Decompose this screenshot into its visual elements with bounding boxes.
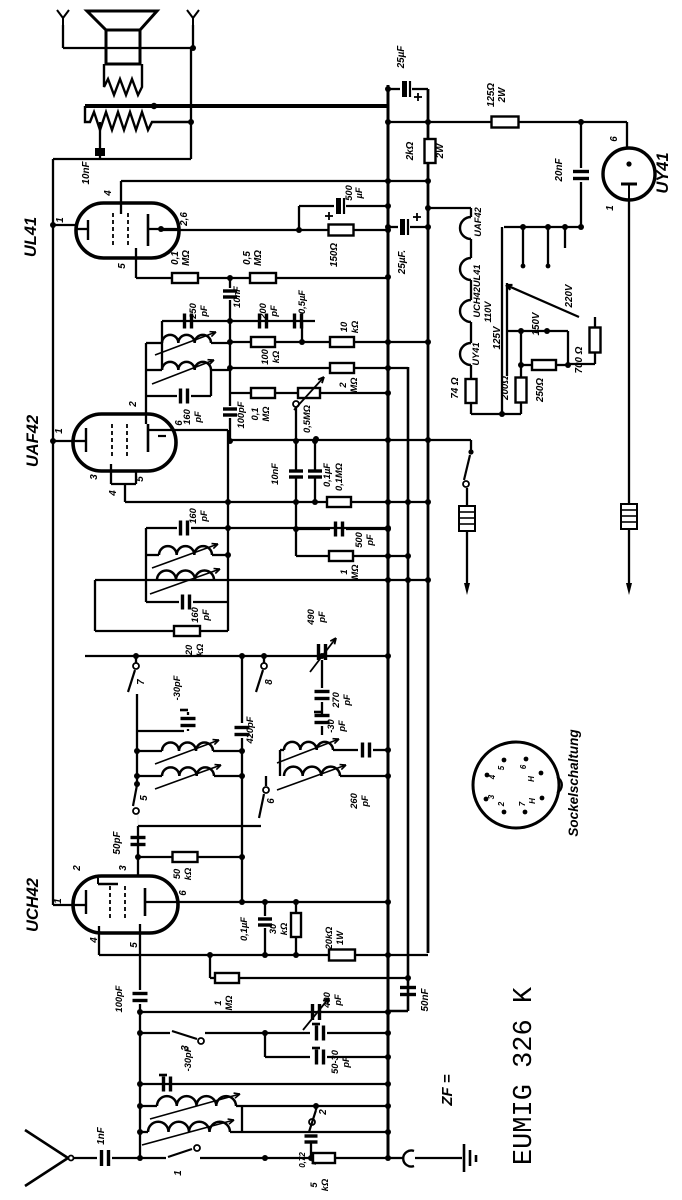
svg-text:µF: µF <box>354 187 364 199</box>
UL41 pin 4 lead <box>120 181 122 214</box>
capacitor 160pF IF1 bottom <box>146 601 179 603</box>
svg-text:490: 490 <box>322 991 332 1008</box>
svg-text:-30pF: -30pF <box>172 675 182 700</box>
IF1 core arrow <box>152 544 218 568</box>
wire IF2 right column <box>145 343 147 396</box>
svg-text:150V: 150V <box>531 311 542 335</box>
svg-text:270: 270 <box>331 691 341 708</box>
node <box>227 318 233 324</box>
svg-text:3: 3 <box>118 865 129 871</box>
node <box>135 854 141 860</box>
antenna coil upper <box>140 1105 157 1107</box>
svg-text:250Ω: 250Ω <box>535 378 546 403</box>
wire cathode row py278 <box>136 277 388 279</box>
svg-text:EUMIG 326 K: EUMIG 326 K <box>510 986 540 1165</box>
wire B+ heavy bus to output <box>85 104 388 108</box>
resistor 125 Ohm 2W <box>492 117 519 128</box>
resistor 2k 2W <box>425 139 436 163</box>
pickup jack hook <box>388 1157 404 1159</box>
resistor 0,1M cathode <box>172 273 198 283</box>
svg-text:pF: pF <box>199 305 209 318</box>
capacitor 0,1uF <box>314 441 316 470</box>
resistor 30k <box>295 902 297 912</box>
svg-text:0,72: 0,72 <box>298 1152 307 1168</box>
capacitor 500uF electrolytic <box>336 198 341 214</box>
UAF42 grid dashed 1 <box>111 424 113 458</box>
wire AVC/feedback left column <box>52 159 54 905</box>
UAF42 cathode <box>85 428 87 452</box>
fuse 1 <box>459 506 475 531</box>
svg-text:Sockelschaltung: Sockelschaltung <box>566 729 581 837</box>
wire detector rail (px408) <box>407 367 410 1011</box>
wire <box>265 1032 310 1034</box>
svg-text:25µF: 25µF <box>396 45 407 70</box>
wire screen row py181 <box>121 180 428 182</box>
heater chain bumps UAF42/UL41/UCH42/UY41 <box>470 208 472 217</box>
wire UCH42 grid column <box>137 813 139 876</box>
svg-text:700 Ω: 700 Ω <box>574 346 585 373</box>
wire 150V row <box>507 330 568 332</box>
svg-text:5: 5 <box>139 795 150 801</box>
svg-text:UY41: UY41 <box>471 342 481 365</box>
wire 50-30 branch <box>264 1033 266 1057</box>
trimmer -30pF bottom right <box>315 1026 318 1041</box>
svg-text:0,1µF: 0,1µF <box>239 917 249 941</box>
svg-text:1: 1 <box>53 898 64 903</box>
svg-text:MΩ: MΩ <box>350 564 360 580</box>
var cap arrow <box>310 638 336 672</box>
IF2 primary coil <box>146 342 162 344</box>
svg-text:74 Ω: 74 Ω <box>450 377 461 399</box>
core arrow <box>150 1094 240 1119</box>
svg-text:kΩ: kΩ <box>195 643 205 656</box>
wire diode row py502 <box>125 501 428 503</box>
svg-text:20kΩ: 20kΩ <box>324 926 334 951</box>
svg-text:2: 2 <box>318 1109 329 1116</box>
resistor 74 Ohm <box>466 379 477 403</box>
svg-text:kΩ: kΩ <box>183 867 193 880</box>
osc coil 1 lower <box>137 775 162 777</box>
capacitor 25uF electrolytic top <box>388 88 400 90</box>
wire UAF42 pin3 lead <box>110 464 112 484</box>
svg-text:1: 1 <box>339 569 349 574</box>
wire 500uF branch <box>298 206 300 230</box>
wire UY41 anode lead <box>626 122 628 148</box>
capacitor 0,1uF screen <box>264 902 266 916</box>
wire UCH42 pin1 lead <box>53 904 73 906</box>
wire row py1033 <box>140 1032 170 1034</box>
svg-text:1: 1 <box>605 205 616 210</box>
wire tuning row py1012 <box>140 1011 388 1013</box>
svg-text:125Ω: 125Ω <box>486 83 497 107</box>
wire switch7 column <box>136 694 138 785</box>
node <box>262 1155 268 1161</box>
wire mains lead 1 <box>466 488 468 506</box>
svg-text:10: 10 <box>339 321 349 332</box>
capacitor 25uF electrolytic 2 <box>388 226 398 228</box>
UCH42 grid dashed 2 <box>124 886 126 920</box>
wire UCH42 anode row <box>178 901 388 903</box>
core arrow <box>155 765 221 789</box>
svg-text:4: 4 <box>488 774 497 780</box>
svg-text:0,1µF: 0,1µF <box>322 463 332 487</box>
svg-text:7: 7 <box>136 679 147 685</box>
trimmer -30pF left <box>181 717 196 720</box>
svg-text:1: 1 <box>54 428 65 433</box>
power switch blade <box>470 440 472 452</box>
resistor 700 Ohm <box>594 317 596 328</box>
svg-text:100: 100 <box>260 348 270 364</box>
UL41 grid 2 (dashed) <box>127 213 129 247</box>
UL41 anode <box>147 214 150 246</box>
tube UAF42 envelope <box>73 414 176 471</box>
svg-text:MΩ: MΩ <box>253 250 264 266</box>
svg-text:490: 490 <box>306 608 316 625</box>
wire mains lead 2 (from UY41) <box>628 200 630 504</box>
wire screen rail (px428) <box>427 89 430 953</box>
capacitor 100pF osc grid <box>133 992 148 995</box>
svg-text:110V: 110V <box>483 301 493 323</box>
capacitor 1nF antenna <box>100 1150 103 1166</box>
svg-text:pF: pF <box>201 609 211 622</box>
wire UAF42 pin1 to AVC column <box>53 440 73 442</box>
svg-text:pF: pF <box>193 411 203 424</box>
capacitor 0,5uF <box>293 314 296 329</box>
resistor 1M <box>329 551 353 561</box>
svg-text:8: 8 <box>264 679 275 685</box>
core arrow <box>277 739 339 763</box>
capacitor 270pF <box>315 690 330 693</box>
capacitor 10nF feedback <box>99 122 101 148</box>
svg-text:-30pF: -30pF <box>183 1046 193 1071</box>
switch 7 <box>135 656 137 663</box>
rectifier tube UY41 <box>603 148 655 200</box>
wire UAF42 anode to IF1 <box>176 429 228 431</box>
osc coil 1 upper <box>137 750 162 752</box>
wire osc grid row <box>138 825 261 827</box>
svg-text:UCH42UL41: UCH42UL41 <box>472 264 482 317</box>
resistor 50k grid leak <box>138 856 173 858</box>
svg-text:0,5: 0,5 <box>242 251 253 265</box>
svg-text:420pF: 420pF <box>245 716 255 744</box>
svg-text:6: 6 <box>174 420 185 426</box>
resistor 150 Ohm <box>329 225 354 236</box>
variable capacitor 490pF osc <box>317 644 320 660</box>
svg-text:pF: pF <box>360 795 370 808</box>
IF1 primary coil <box>146 554 159 556</box>
wire antenna lead <box>73 1157 97 1159</box>
speaker terminal left <box>57 10 69 25</box>
svg-text:pF: pF <box>317 611 327 624</box>
IF1 core arrow 2 <box>150 569 220 594</box>
mains prong tip 2 <box>626 583 632 595</box>
wire <box>190 48 192 159</box>
IF1 secondary coil <box>157 571 214 581</box>
wire UL41 pin5 lead <box>135 248 137 278</box>
svg-text:260: 260 <box>349 792 359 809</box>
wire <box>321 660 323 688</box>
svg-text:6: 6 <box>266 798 277 804</box>
UY41 anode bar <box>621 183 637 186</box>
svg-text:100pF: 100pF <box>114 985 124 1012</box>
svg-text:6: 6 <box>178 890 189 896</box>
svg-text:0,1: 0,1 <box>250 408 260 421</box>
svg-text:UCH42: UCH42 <box>24 878 42 932</box>
svg-text:6: 6 <box>609 136 620 142</box>
wire row py1084 <box>140 1083 388 1085</box>
wire AVC row py580 <box>95 579 428 581</box>
wire trimmer row <box>137 730 184 732</box>
resistor 2M <box>230 367 330 369</box>
wire <box>567 331 569 365</box>
svg-text:2: 2 <box>128 401 139 408</box>
resistor 100k <box>251 337 275 347</box>
wire UL41 anode row <box>161 229 329 231</box>
UCH42 anode <box>144 888 147 916</box>
UCH42 triode plate <box>98 883 118 885</box>
svg-text:pF: pF <box>199 510 209 523</box>
svg-text:1nF: 1nF <box>96 1126 107 1144</box>
svg-text:1: 1 <box>55 217 66 222</box>
svg-text:20nF: 20nF <box>554 158 565 183</box>
switch 3 <box>172 1031 197 1039</box>
svg-text:10nF: 10nF <box>270 463 280 485</box>
IF2 core arrow <box>155 332 216 355</box>
node <box>227 275 233 281</box>
capacitor 20nF <box>580 122 582 168</box>
svg-text:kΩ: kΩ <box>350 320 360 333</box>
plus mark <box>413 216 421 218</box>
svg-text:2W: 2W <box>435 143 446 159</box>
wire UL41 grid row (pin1) to feedback column <box>53 224 76 226</box>
svg-text:1W: 1W <box>335 930 345 945</box>
svg-text:-30: -30 <box>326 718 336 732</box>
UY41 cathode dot <box>626 161 631 166</box>
switch 6 <box>265 776 267 786</box>
resistor 250 Ohm <box>521 364 533 366</box>
svg-text:6: 6 <box>519 764 528 769</box>
svg-text:200: 200 <box>258 302 268 319</box>
antenna symbol <box>25 1130 68 1186</box>
capacitor 100pF <box>229 321 231 406</box>
UL41 grid 1 (dashed) <box>112 213 114 247</box>
var cap arrow <box>303 998 329 1030</box>
capacitor 420pF padder <box>241 656 243 723</box>
wire <box>466 531 468 583</box>
UAF42 grid dashed 2 <box>126 424 128 458</box>
pot wiper arrow <box>294 377 324 410</box>
svg-text:2: 2 <box>72 865 83 872</box>
ground symbol <box>463 1144 466 1172</box>
core arrow <box>142 1120 234 1145</box>
resistor 20k 1W <box>329 950 355 961</box>
trimmer -30pF antenna <box>162 1077 165 1092</box>
wire coil link <box>230 1131 388 1133</box>
svg-text:7: 7 <box>518 801 527 806</box>
wire selector top row <box>504 226 581 228</box>
svg-text:pF: pF <box>342 694 352 707</box>
svg-text:H: H <box>528 798 537 804</box>
mains prong tip 1 <box>464 583 470 595</box>
variable capacitor 490pF tuning <box>311 1004 314 1020</box>
svg-text:2: 2 <box>338 382 348 389</box>
svg-text:160: 160 <box>188 507 198 523</box>
capacitor 50nF <box>400 986 416 989</box>
wire <box>236 1105 316 1107</box>
UCH42 grid dashed 1 <box>109 886 111 920</box>
svg-text:5: 5 <box>309 1182 319 1188</box>
fuse 2 <box>621 504 637 529</box>
tube UCH42 envelope <box>73 876 178 933</box>
svg-text:UAF42: UAF42 <box>473 206 483 236</box>
svg-text:500: 500 <box>354 531 364 547</box>
node osc <box>134 781 140 787</box>
node speaker junction <box>188 119 194 125</box>
capacitor 200pF <box>258 314 261 329</box>
svg-text:10nF: 10nF <box>81 161 92 185</box>
plus mark <box>325 215 333 217</box>
svg-text:50: 50 <box>172 868 182 879</box>
UCH42 cathode <box>85 890 87 914</box>
svg-text:5: 5 <box>129 942 140 948</box>
switch 2 <box>315 1106 317 1110</box>
wire IF1 left column <box>145 528 147 602</box>
svg-text:MΩ: MΩ <box>349 377 359 393</box>
svg-text:pF: pF <box>341 1056 351 1069</box>
IF2 secondary coil <box>146 369 162 371</box>
selector bracket <box>501 227 503 283</box>
svg-text:10nF: 10nF <box>232 286 242 308</box>
wire AVC drop column <box>94 580 96 631</box>
UAF42 diode plate <box>158 435 166 437</box>
wire selector return <box>501 283 503 414</box>
wire UCH42 pin4 lead <box>98 926 100 955</box>
resistor 0,1M diode load <box>327 497 351 507</box>
wire mains row py122 <box>388 121 627 123</box>
field coil / winding (zigzag 2) <box>85 106 191 130</box>
wire heater bottom row <box>470 403 472 414</box>
potentiometer 0,5M volume <box>298 388 320 398</box>
svg-text:kΩ: kΩ <box>320 1178 330 1191</box>
svg-text:200Ω: 200Ω <box>500 376 511 401</box>
svg-text:pF: pF <box>333 994 343 1007</box>
svg-text:250: 250 <box>188 302 198 319</box>
svg-text:0,5µF: 0,5µF <box>297 290 307 314</box>
resistor 0,1M <box>251 388 275 398</box>
svg-text:5: 5 <box>497 765 506 770</box>
svg-text:2: 2 <box>497 801 506 807</box>
selector wiper arm <box>506 285 579 317</box>
svg-text:20: 20 <box>184 644 194 656</box>
wire to ground <box>415 1157 462 1159</box>
osc coil 2 lower <box>284 767 340 776</box>
switch 8 <box>263 656 265 663</box>
wire speaker row <box>63 47 193 49</box>
wire antenna feed column <box>139 1012 141 1158</box>
capacitor 260pF <box>333 749 358 751</box>
svg-text:50-30: 50-30 <box>330 1049 340 1074</box>
svg-text:125V: 125V <box>492 325 503 349</box>
svg-text:160: 160 <box>190 606 200 622</box>
svg-text:pF: pF <box>365 534 375 547</box>
selector tap 220V stub <box>564 227 566 248</box>
resistor 10k <box>330 337 354 347</box>
wire main tuning bus py656 <box>85 655 388 657</box>
pot wiper tap <box>293 401 299 407</box>
IF2 core arrow 2 <box>152 360 214 384</box>
capacitor 10nF cathode <box>229 278 231 288</box>
svg-text:1: 1 <box>213 1000 223 1005</box>
svg-text:150Ω: 150Ω <box>329 243 340 267</box>
wire resistor row py393 <box>230 392 251 394</box>
capacitor 10nF 2 <box>295 441 297 470</box>
switch 1 <box>168 1149 192 1157</box>
output transformer box <box>106 30 140 64</box>
svg-text:ZF =: ZF = <box>439 1074 456 1106</box>
svg-text:MΩ: MΩ <box>181 250 192 266</box>
osc coil 2 upper <box>280 749 284 751</box>
svg-text:1: 1 <box>173 1170 184 1175</box>
trimmer 50-30pF <box>315 1050 318 1065</box>
wire IF2 left column <box>161 321 163 370</box>
svg-text:0,1: 0,1 <box>170 251 181 265</box>
svg-text:4: 4 <box>103 190 114 197</box>
trimmer -30pF osc <box>321 702 323 714</box>
plus mark <box>414 96 422 98</box>
transformer primary winding (zigzag) <box>104 64 142 95</box>
svg-text:30: 30 <box>268 923 278 934</box>
svg-text:H: H <box>527 776 536 782</box>
capacitor 160pF IF1 top <box>146 527 177 529</box>
wire mains switch row <box>230 439 471 441</box>
wire feedback row <box>53 158 191 160</box>
resistor 200 Ohm <box>520 331 522 377</box>
svg-text:MΩ: MΩ <box>224 995 234 1011</box>
capacitor 250pF <box>183 314 186 329</box>
core arrow <box>277 765 346 790</box>
capacitor 160pF IF2 <box>146 395 177 397</box>
svg-text:UL41: UL41 <box>22 217 40 257</box>
speaker terminal right <box>187 10 199 25</box>
resistor 20k <box>95 630 173 632</box>
resistor 0,5M <box>250 273 276 283</box>
svg-text:2W: 2W <box>497 87 508 103</box>
svg-text:UAF42: UAF42 <box>24 415 42 467</box>
svg-text:MΩ: MΩ <box>261 406 271 422</box>
UAF42 anode <box>147 424 150 452</box>
svg-text:220V: 220V <box>564 283 575 308</box>
capacitor 50pF <box>131 836 146 839</box>
svg-text:50pF: 50pF <box>112 831 123 855</box>
svg-text:5: 5 <box>117 263 128 269</box>
svg-text:25µF.: 25µF. <box>397 250 408 275</box>
switch 5 <box>133 785 137 806</box>
resistor 5k <box>313 1153 335 1163</box>
wire top row py321 <box>162 320 315 322</box>
capacitor 500pF <box>334 522 337 537</box>
svg-text:2kΩ: 2kΩ <box>405 141 416 161</box>
selector tap stub 2 <box>547 227 549 264</box>
svg-text:pF: pF <box>337 720 347 733</box>
speaker LS cone <box>87 11 157 30</box>
capacitor 0,72nF <box>305 1134 318 1137</box>
svg-text:3: 3 <box>487 794 496 799</box>
svg-text:0,1MΩ: 0,1MΩ <box>334 462 344 491</box>
wire heater top row <box>428 207 471 209</box>
wire <box>628 529 630 583</box>
selector tap 110V stub <box>522 227 524 264</box>
wire 0,5uF drop <box>301 321 303 342</box>
